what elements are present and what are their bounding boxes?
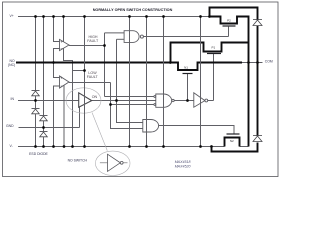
wire col C comparator column	[54, 17, 60, 147]
wire HF column x=103.9	[105, 33, 154, 97]
diode D5 top clamp	[253, 20, 262, 26]
junction dots V- rail	[34, 145, 37, 148]
V+ rail	[18, 16, 210, 18]
svg-text:ESD DIODE: ESD DIODE	[29, 152, 48, 156]
svg-text:V+: V+	[10, 14, 14, 18]
COM output wire	[242, 62, 263, 64]
V- rail	[18, 146, 249, 148]
wire branch y=70.9	[73, 70, 85, 72]
svg-text:FAULT: FAULT	[87, 75, 99, 79]
wire col D jog to col E	[64, 17, 73, 147]
transistor N1 gate	[183, 73, 193, 75]
bubble inverter symbol	[100, 162, 128, 164]
inverter U4	[194, 93, 205, 107]
svg-text:MAX4518: MAX4518	[175, 160, 191, 164]
transistor P2 channel	[210, 17, 249, 147]
junction dot COM	[247, 61, 250, 64]
ON buffer U3	[79, 93, 92, 107]
AND gate G3 (3-input)	[143, 120, 159, 133]
IN input wire	[18, 100, 79, 102]
wire col x=129.5	[129, 17, 131, 147]
diode D6 bottom clamp	[253, 136, 262, 142]
NAND1 output wire to P2 gate	[143, 27, 228, 37]
comparator U1 HIGH FAULT	[60, 39, 70, 50]
wire col B (GND clamp column)	[43, 17, 45, 147]
junction dot IN	[34, 99, 37, 102]
svg-text:P2: P2	[227, 18, 231, 22]
wire col x=84.5	[84, 17, 86, 147]
thick bypass V+ to top diode to COM clamp	[210, 8, 258, 152]
svg-text:NO SWITCH: NO SWITCH	[68, 159, 88, 163]
svg-text:N2: N2	[230, 139, 234, 143]
junction dot col E	[83, 69, 86, 72]
transistor P2 gate	[223, 25, 236, 27]
svg-text:ON: ON	[92, 95, 98, 99]
wire NAND2 output	[174, 100, 194, 102]
svg-text:NORMALLY OPEN SWITCH CONSTRUCT: NORMALLY OPEN SWITCH CONSTRUCTION	[93, 8, 173, 12]
transistor P1 gate	[207, 53, 221, 55]
svg-text:P1: P1	[211, 46, 215, 50]
wire ON buffer output	[92, 100, 156, 102]
transistor N2 channel	[225, 138, 240, 147]
svg-text:N1: N1	[184, 65, 188, 69]
wire LF column x=110.6	[111, 83, 154, 129]
wire N1 gate lead	[187, 74, 189, 101]
callout leader line	[92, 113, 107, 151]
wire col x=200.5	[200, 17, 202, 147]
wire AND3 output to N2 gate	[159, 126, 234, 135]
svg-text:GND: GND	[6, 124, 14, 128]
wire col x=146.5	[146, 17, 148, 147]
wire ON column x=116.7	[117, 39, 143, 122]
svg-text:FAULT: FAULT	[87, 39, 99, 43]
wire NAND1 in2	[117, 38, 125, 40]
callout ellipse around ON buffer	[66, 88, 101, 113]
NAND gate G2 (3-input)	[156, 94, 172, 107]
junction dot GND	[42, 126, 45, 129]
wire col A (IN clamp column)	[35, 17, 37, 147]
wire col x=63.8 lower	[63, 86, 65, 147]
wire inverter output to P1 gate	[208, 54, 214, 101]
GND input wire	[19, 107, 80, 128]
junction dots V+ rail	[34, 15, 259, 148]
svg-text:(NC): (NC)	[8, 63, 15, 67]
svg-text:IN: IN	[11, 97, 15, 101]
border frame	[3, 2, 279, 177]
diode D4 (V- to GND)	[40, 132, 48, 138]
transistor N2 gate	[227, 133, 240, 135]
transistor P1 channel	[171, 43, 249, 63]
comparator U1 output wire	[69, 45, 105, 47]
callout bubble NO SWITCH detail	[95, 151, 130, 175]
diode D1 (IN to V+)	[32, 91, 40, 97]
wire col x=163.5	[163, 17, 165, 147]
diode D2 (V- to IN)	[32, 109, 40, 115]
comparator U2 output wire	[69, 82, 111, 84]
NO line and transistor N1 channel	[16, 63, 242, 71]
svg-text:MAX4520: MAX4520	[175, 164, 191, 168]
svg-text:COM: COM	[265, 59, 273, 63]
junction dots NO line	[52, 61, 55, 64]
comparator U2 LOW FAULT	[60, 76, 70, 88]
svg-text:V-: V-	[10, 144, 13, 148]
junction dot comparator outputs	[103, 44, 106, 47]
diode D3 (GND to V+)	[40, 116, 48, 122]
NAND gate G1	[124, 31, 139, 43]
